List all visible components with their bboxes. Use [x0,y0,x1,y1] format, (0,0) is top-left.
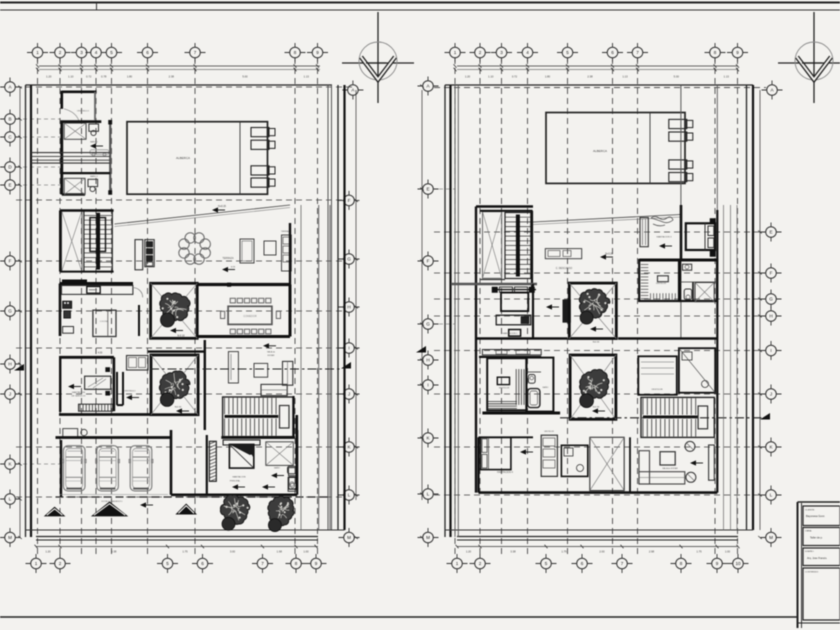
patio 2 level arrow [175,407,189,414]
section marker right plan 1 [341,362,351,369]
bedroom 4 label [497,449,533,474]
bath left walls plan 2 [526,358,553,412]
svg-text:ALBERCA: ALBERCA [593,149,607,153]
dimension string bottom (plan 2) [456,545,740,554]
svg-text:G: G [347,257,351,262]
svg-text:F: F [770,271,773,276]
svg-text:7: 7 [636,50,639,55]
garden tree 1 blob [222,517,235,530]
svg-text:G: G [8,309,12,314]
svg-text:2.98: 2.98 [649,550,655,554]
living sofa tall plan 1 [228,352,238,383]
svg-text:ESTAR: ESTAR [268,354,275,357]
stairs 2 plan 1 [223,397,293,437]
svg-text:SALA de: SALA de [267,351,276,354]
bed 3 plan 2 [686,219,716,257]
dimension string top (plan 1) [36,64,320,78]
svg-text:H: H [347,305,350,310]
balcony strip lines plan 1 [301,205,330,530]
vestidor left walls plan 2 [487,358,526,410]
service room label [68,384,86,398]
svg-text:3: 3 [500,50,503,55]
svg-text:3.38: 3.38 [510,550,516,554]
living L-sofa plan 1 [261,343,293,395]
hallway lines [31,153,110,164]
car 3 [130,446,152,491]
patio 2 paving X plan 2 [570,355,616,419]
svg-text:BAÑO 1: BAÑO 1 [90,141,98,144]
stairs 2 plan 2 [641,397,714,437]
outer wall top (plan 1) [26,84,333,86]
svg-text:VESTIBULO: VESTIBULO [77,111,90,113]
svg-text:F: F [427,259,430,264]
svg-text:4: 4 [526,50,529,55]
svg-text:1.75: 1.75 [182,550,188,554]
garage left wall [60,440,62,497]
closet strip plan 1 [127,356,149,371]
stair shaft X plan 1 [62,211,82,272]
patio 1 paving X [151,283,198,338]
svg-text:2: 2 [59,561,62,566]
svg-text:L: L [427,492,430,497]
living table plan 1 [254,363,268,377]
grid lines vertical (plan 1) [38,58,318,556]
svg-text:E: E [426,187,429,192]
kitchen island plan 1 [93,310,116,336]
bedroom 4 walls plan 2 [479,437,534,492]
svg-text:1.20: 1.20 [465,75,471,79]
heavy wall below vestidor plan 2 [482,412,560,415]
stairs 1 plan 2 [505,213,531,279]
svg-text:3: 3 [80,50,83,55]
svg-text:VESTIDOR: VESTIDOR [656,283,667,285]
grid lines vertical (plan 2) [455,58,738,556]
grid bubbles left column (plan 2) [418,77,439,548]
svg-text:1.80: 1.80 [545,75,551,79]
tree 2 trunk blob [160,393,174,407]
svg-text:2: 2 [59,50,62,55]
corridor walls right of service [117,372,139,405]
svg-text:L: L [9,497,12,502]
section marker right plan 2 [760,413,770,420]
service room bed [85,376,111,389]
svg-text:OBRA:: OBRA: [805,530,812,533]
svg-text:9: 9 [316,50,319,55]
outer wall bottom (plan 2) [445,530,753,540]
level arrow c.descanso [600,254,613,260]
svg-text:M: M [8,535,12,540]
svg-text:5: 5 [566,50,569,55]
bedroom 1 label [502,304,559,335]
svg-text:7: 7 [621,561,624,566]
svg-text:HABITACION 1: HABITACION 1 [502,332,518,335]
closet X bottom plan 1 [266,442,294,466]
terrace table plan 1 [264,241,276,255]
bath rooms outer walls [60,120,112,194]
svg-text:5.00: 5.00 [674,75,680,79]
svg-text:1: 1 [454,50,457,55]
kitchen walls plan 1 [60,284,140,337]
chair circle 2 plan 2 [686,472,696,482]
bath mid-right plan 2 [680,260,717,302]
kitchen door arc plan 1 [133,288,143,298]
tree 2 plan 1 [159,371,190,399]
closet 2 with X [64,178,85,194]
closet 1 with X [64,123,86,139]
svg-text:7: 7 [261,561,264,566]
tree 1 plan 2 [579,289,610,318]
bath 2 top wall [60,172,110,174]
svg-text:CONTENIDO:: CONTENIDO: [805,572,819,574]
tree 1 plan 1 [160,293,190,321]
sheet top border tick [96,3,98,10]
svg-text:9: 9 [716,561,719,566]
svg-text:1: 1 [456,561,459,566]
svg-text:5: 5 [545,561,548,566]
grid bubble A (plan 1 right top) [342,81,363,100]
inner boundary lines plan 2 [455,85,458,537]
dimension string left (plan 2) [420,85,424,540]
svg-text:H: H [8,362,11,367]
svg-text:I: I [427,383,428,388]
svg-text:2.38: 2.38 [587,75,593,79]
svg-text:J: J [770,392,772,397]
svg-text:HABITACION: HABITACION [232,476,246,479]
svg-text:E: E [8,183,11,188]
grid lines horizontal (plan 2) [418,88,766,495]
svg-text:C. DESCANSO: C. DESCANSO [556,267,573,270]
bath bottom plan 2 [561,445,587,476]
bed bottom plan 1 [223,440,260,468]
svg-text:H: H [426,358,429,363]
outer wall right (plan 1) [328,85,345,530]
svg-text:5: 5 [166,561,169,566]
svg-text:4.30: 4.30 [98,353,103,355]
svg-text:F: F [9,259,12,264]
svg-text:10: 10 [735,561,741,566]
svg-text:8: 8 [714,50,717,55]
tree 2 blob plan 2 [580,394,594,408]
grid bubbles right column (plan 2) [761,223,782,548]
bath fixtures bottom plan 1 [271,466,296,491]
clothes scribble hab 3 [651,217,673,226]
svg-text:2.00: 2.00 [599,550,605,554]
asador counter plan 1 [281,230,292,271]
patio 2 level arrow plan 2 [592,407,605,414]
shelf band above vestidor plan 2 [479,350,541,357]
svg-text:1.68: 1.68 [277,550,283,554]
tree 2 plan 2 [580,369,609,398]
svg-text:VESTIDOR: VESTIDOR [544,431,554,433]
svg-text:1.00: 1.00 [303,550,309,554]
bedroom 3 walls [639,205,717,260]
svg-text:M: M [769,535,773,540]
svg-text:M: M [426,535,430,540]
wall mass left of patio 1 plan 2 [563,300,571,323]
svg-text:G: G [769,297,773,302]
svg-text:SALA de ESTAR: SALA de ESTAR [662,467,678,470]
svg-text:I: I [348,346,349,351]
svg-text:1.13: 1.13 [304,75,310,79]
svg-text:5.00: 5.00 [242,75,248,79]
terrace level arrow [212,205,227,213]
outer wall left (plan 2) [445,85,451,537]
vestidor 2 walls plan 2 [638,356,677,395]
toilet bath 1 [89,124,103,149]
grid bubbles right column (plan 1) [339,191,360,547]
svg-text:3.00: 3.00 [230,550,236,554]
svg-text:1.20: 1.20 [46,75,52,79]
svg-text:8: 8 [295,561,298,566]
pool lounge chairs plan 2 [669,119,693,181]
building wall left (plan 2) [475,207,477,493]
speed bump 1 [44,507,66,517]
vestidor 1 walls plan 2 [639,260,679,301]
shower X bottom plan 2 [590,437,624,490]
bed 1 plan 2 [492,287,536,336]
car silhouette hallway [90,150,109,156]
svg-text:HABITACION 3: HABITACION 3 [656,236,672,239]
pool (ALBERCA) plan 2 [546,113,685,184]
patio 2 walls [148,340,205,430]
bedroom 3 label [656,236,672,249]
column service room 1 [106,368,110,372]
driveway arrow [262,484,275,489]
building wall right interior (plan 2) [716,210,718,493]
svg-text:6: 6 [201,561,204,566]
svg-text:G: G [426,322,430,327]
svg-text:BAÑO: BAÑO [543,386,549,389]
bath 2 right plan 2 [679,348,715,393]
dimension string right (plan 2) [758,90,762,539]
svg-text:VESTIDOR: VESTIDOR [499,387,510,389]
svg-text:F: F [348,198,351,203]
svg-text:COCINA: COCINA [100,320,109,323]
north arrow (plan 2) [778,12,840,103]
slope line plan 2 [533,215,681,225]
building edge lines above rooms plan 2 [681,85,717,338]
svg-text:TERRAZA: TERRAZA [222,257,234,260]
svg-text:BAÑO: BAÑO [274,467,280,470]
svg-text:8: 8 [680,561,683,566]
svg-text:HABITACION 4: HABITACION 4 [497,471,514,474]
svg-text:Taller de p.: Taller de p. [810,536,823,540]
section cut line plan 2 [560,417,762,419]
vestibule room walls [62,91,97,121]
grid bubbles bottom row (plan 2) [447,554,749,573]
svg-text:0.72: 0.72 [86,75,92,79]
svg-text:1: 1 [36,50,39,55]
pool (ALBERCA) plan 1 [127,122,268,195]
stair walls plan 2 [480,211,533,288]
service room shelf hatch [79,404,113,411]
garage floor line [56,495,331,508]
outer wall bottom (plan 1) [26,530,345,540]
closet hatch band bedroom [209,441,216,481]
svg-text:2: 2 [479,50,482,55]
svg-text:I: I [770,348,771,353]
dimension string left (plan 1) [18,86,22,540]
sheet top border line (inner) [0,9,840,11]
pool lounge chairs plan 1 [251,128,275,188]
stair shaft X plan 2 [483,212,502,279]
grid bubbles left column (plan 1) [0,78,21,548]
svg-text:H: H [769,314,772,319]
speed bump 3 [175,504,197,515]
outer wall top (plan 2) [445,84,753,86]
kitchen counter plan 1 [62,286,133,295]
svg-text:9: 9 [736,50,739,55]
svg-text:VESTIDOR: VESTIDOR [651,389,663,391]
grid bubbles top row (plan 1) [27,43,328,62]
bedroom 1 walls plan 2 [451,284,537,338]
stairs 1 plan 1 [84,211,112,272]
svg-text:1: 1 [35,561,38,566]
svg-text:5: 5 [110,50,113,55]
terrace level arrow 2 [222,257,236,272]
svg-text:L: L [348,493,351,498]
svg-text:BAÑO 2: BAÑO 2 [90,175,98,178]
column service room 2 [106,391,110,395]
svg-text:1.20: 1.20 [45,550,51,554]
svg-text:1.13: 1.13 [724,75,730,79]
svg-text:N-0.10: N-0.10 [175,407,182,409]
bedroom walls bottom plan 1 [171,430,297,495]
svg-text:1.75: 1.75 [561,550,567,554]
svg-text:0.72: 0.72 [512,75,518,79]
kitchen appliances plan 1 [63,301,74,333]
terrace sofa plan 1 [240,239,254,263]
terrace cabinet 2 [145,240,154,267]
toilet bath 2 [88,175,99,192]
service room walls [59,353,151,415]
living walls bottom plan 2 [629,437,631,492]
svg-text:ALBERCA: ALBERCA [176,156,190,160]
outer wall right (plan 2) [747,85,754,530]
patio 2 paving X [151,355,198,415]
svg-text:7: 7 [194,50,197,55]
sheet top border line (outer) [0,2,840,4]
svg-text:E: E [769,230,772,235]
svg-text:DISEÑO:: DISEÑO: [805,550,814,553]
svg-text:PRINCIPAL: PRINCIPAL [230,480,241,483]
svg-text:N+0.15: N+0.15 [218,205,226,208]
mid wall plan 2 [476,337,717,339]
svg-text:DE SERVICIO: DE SERVICIO [71,395,85,397]
bedroom label bottom plan 1 [230,476,246,490]
dimension string right (plan 1) [354,90,358,539]
title block [798,502,840,628]
car 1 [63,446,85,491]
section marker left plan 1 [14,364,24,371]
svg-text:J: J [9,392,11,397]
svg-text:Bayonesa Gonz.: Bayonesa Gonz. [806,514,825,518]
boiler room fixtures plan 1 [289,415,297,490]
svg-text:2: 2 [479,561,482,566]
svg-text:VESTIBULO: VESTIBULO [124,391,136,393]
bath 3 below service [56,429,172,438]
svg-text:1.13: 1.13 [622,75,628,79]
svg-text:HABITACION: HABITACION [72,391,86,394]
svg-text:4: 4 [95,50,98,55]
svg-text:1.80: 1.80 [127,75,133,79]
balcony strip lines plan 2 [724,205,738,530]
dimension string top (plan 2) [454,64,740,78]
svg-text:6: 6 [581,561,584,566]
L-sofa bottom plan 2 [639,451,685,484]
building wall top (plan 2) [476,205,533,207]
svg-text:L: L [770,493,773,498]
sheet bottom border line [0,616,798,618]
car 2 [97,446,119,491]
north arrow (plan 1) [342,12,414,103]
grid lines horizontal (plan 1) [16,87,352,497]
terrace cabinet 1 [135,240,143,270]
patio level arrow [170,328,185,338]
table bottom plan 2 [660,452,675,465]
speed bump 2 [91,502,128,517]
garden tree 1 plan 1 [220,495,249,524]
round dining table plan 1 [179,233,211,265]
closet strip bottom plan 2 [541,431,557,476]
cabinet bottom-right plan 2 [662,445,714,480]
patio 1 level arrow plan 2 [590,326,603,343]
bottom wall plan 2 [479,491,718,494]
tree 1 blob plan 2 [580,311,593,324]
grid bubbles top row (plan 2) [445,43,749,62]
patio 1 paving X plan 2 [569,283,616,338]
garden tree 2 plan 1 [268,496,294,526]
section cut line plan 1 [150,368,340,370]
grid bubble A (plan 2 right top) [762,81,783,100]
svg-text:N-0.10: N-0.10 [593,342,600,344]
svg-text:8: 8 [294,50,297,55]
tree 1 trunk blob [161,313,175,327]
svg-text:9: 9 [315,561,318,566]
dining table plan 1 [221,298,281,334]
tv cabinet plan 2 [545,249,581,270]
svg-text:J: J [348,392,350,397]
svg-text:N+3.20: N+3.20 [605,254,613,256]
stairs 2 walls plan 1 [221,396,295,438]
wardrobe hab 3 [640,218,648,247]
svg-text:N-0.10: N-0.10 [593,407,600,409]
svg-text:1.10: 1.10 [68,75,74,79]
svg-text:0.78: 0.78 [101,75,107,79]
svg-text:COMEDOR: COMEDOR [243,314,257,318]
svg-text:1.10: 1.10 [488,75,494,79]
svg-text:1.20: 1.20 [466,550,472,554]
svg-text:2.38: 2.38 [169,75,175,79]
svg-text:CLIENTE:: CLIENTE: [805,510,815,512]
svg-text:M: M [347,535,351,540]
grid bubbles bottom row (plan 1) [26,554,327,573]
dimension string bottom (plan 1) [35,545,319,554]
svg-text:6: 6 [611,50,614,55]
bed 4 plan 2 [481,437,511,469]
terrace slope line plan 1 [115,205,291,227]
section marker left plan 2 [416,346,426,353]
svg-text:ESTACIONAMIENTO: ESTACIONAMIENTO [102,500,123,503]
svg-text:6: 6 [146,50,149,55]
svg-text:B: B [8,117,11,122]
svg-text:Arq. Jose Francis.: Arq. Jose Francis. [807,557,827,560]
dining room walls [197,223,291,338]
outer wall left (plan 1) [26,85,32,537]
garden tree 2 blob [268,519,281,532]
svg-text:N-0.10: N-0.10 [177,335,185,338]
stair walls plan 1 [60,211,113,282]
